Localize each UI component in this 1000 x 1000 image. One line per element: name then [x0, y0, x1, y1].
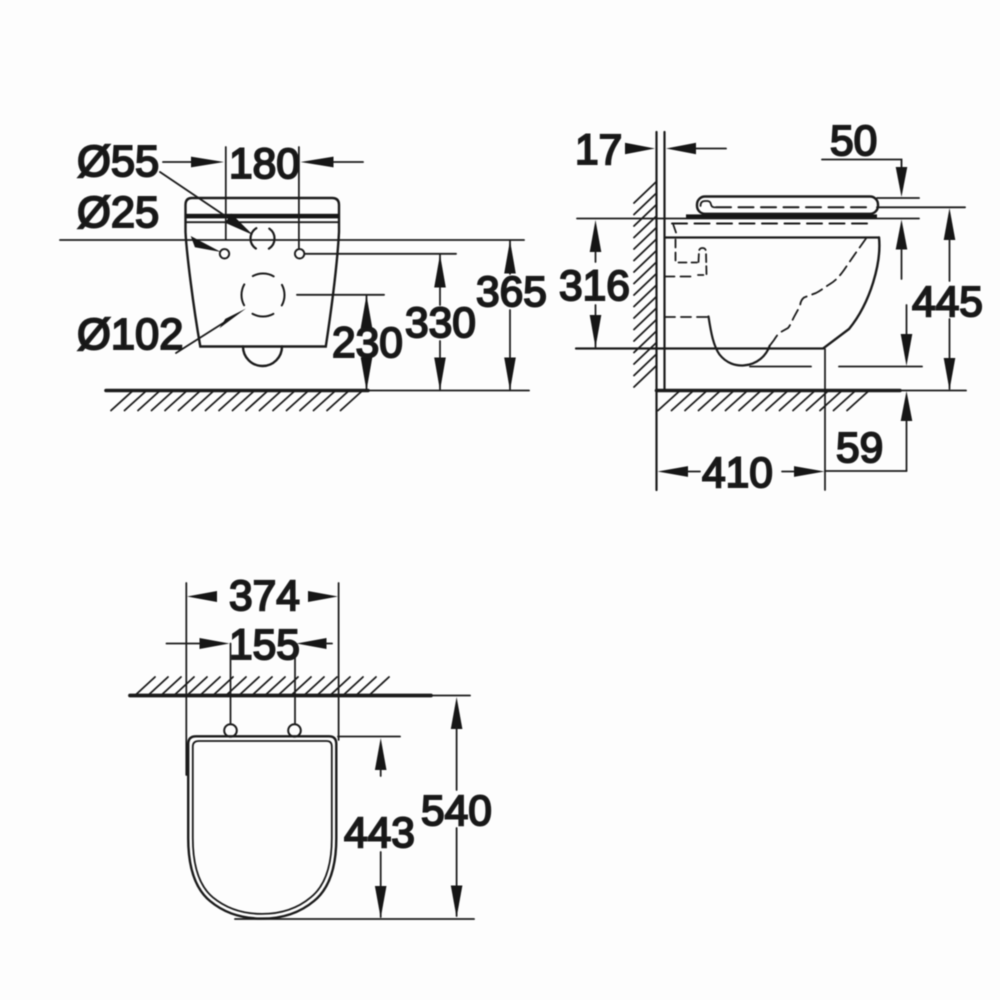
hidden line near wall: [665, 276, 694, 278]
small tick below seat: [673, 225, 676, 233]
left bolt bump: [224, 724, 237, 737]
230 reference line at O102 level: [297, 294, 384, 296]
rim reference line (also O25 leader and 365 top reference): [60, 239, 524, 241]
seat gap black bar: [686, 214, 877, 218]
bowl trap solid U curve: [709, 317, 770, 366]
155 tails and arrows: [167, 643, 203, 645]
wall line inner: [663, 132, 665, 390]
body bottom line: [576, 347, 824, 349]
right bolt bump: [288, 724, 301, 737]
155 extension line left: [230, 644, 232, 725]
svg-text:365: 365: [476, 269, 547, 316]
right fixing hole circle: [295, 249, 304, 258]
plan wall hatching: [136, 677, 389, 695]
seat lid rounded profile: [697, 197, 878, 214]
ground line thick: [106, 389, 368, 393]
rim block bottom line: [666, 236, 880, 238]
17 right arrow and tail: [666, 143, 696, 154]
50 down arrow: [896, 167, 908, 197]
374 extension line right: [338, 583, 340, 740]
left fixing hole circle: [220, 249, 229, 258]
reference line 445 top: [877, 206, 965, 208]
drain pipe semicircle: [243, 347, 282, 367]
50 leader elbow: [822, 160, 902, 173]
bottom reference line: [235, 918, 474, 920]
svg-text:330: 330: [405, 300, 476, 347]
SIDE-VIEW: [559, 118, 983, 497]
flush channel dashed vertical: [676, 240, 698, 263]
seat gap thick bar: [186, 214, 339, 219]
59 reference line at trap bottom: [750, 366, 811, 368]
ground hatching: [111, 392, 362, 411]
svg-text:374: 374: [229, 573, 300, 620]
svg-text:180: 180: [229, 141, 300, 188]
svg-text:Ø25: Ø25: [77, 189, 159, 237]
top reference line from lid: [877, 197, 919, 199]
180 right arrow: [301, 157, 334, 168]
180 extension line left: [225, 147, 227, 239]
17 left arrow and tail: [625, 143, 655, 154]
ground line thin extension: [368, 390, 529, 392]
flush channel dashed loop: [698, 248, 707, 275]
ground line thin extension: [900, 390, 966, 392]
svg-text:50: 50: [830, 118, 877, 165]
svg-text:17: 17: [575, 127, 622, 174]
svg-text:Ø55: Ø55: [77, 138, 159, 186]
410 extension line right: [824, 349, 826, 490]
PLAN-VIEW: [130, 573, 492, 919]
hidden seat dashed line: [672, 223, 874, 225]
443 top reference line: [338, 736, 400, 738]
bowl inner dashed contour: [770, 239, 867, 347]
side ground hatching: [658, 392, 868, 411]
374 extension line left: [185, 583, 187, 775]
wall line thin extension: [431, 695, 470, 697]
svg-text:445: 445: [912, 279, 983, 326]
wall hatching: [634, 182, 656, 387]
lid dashed hidden line: [716, 206, 872, 208]
180 dimension line tails: [163, 161, 193, 163]
O55 leader line with arrow: [160, 172, 232, 221]
FRONT-VIEW: [60, 138, 547, 411]
seat lower edge line: [186, 221, 338, 223]
plan body outer outline: [188, 736, 336, 918]
180 extension line right: [298, 147, 300, 248]
O55 dashed circle: [251, 227, 275, 251]
330 reference line at bolt level: [305, 253, 456, 255]
svg-text:59: 59: [836, 425, 883, 472]
wall line thick: [130, 694, 431, 698]
front bowl body outline: [186, 198, 340, 347]
svg-text:155: 155: [229, 622, 300, 669]
ground line thick: [657, 389, 901, 393]
svg-text:316: 316: [559, 263, 630, 310]
59 leader horizontal: [825, 470, 907, 472]
bowl outer profile curve: [824, 238, 880, 349]
155 extension line right: [294, 644, 296, 725]
50 up arrow with tail: [896, 220, 908, 250]
O102 dashed circle: [242, 274, 285, 317]
374 arrows: [187, 591, 217, 602]
180 left arrow: [191, 157, 224, 168]
svg-text:410: 410: [702, 450, 773, 497]
plan body inner outline: [193, 741, 332, 914]
svg-text:443: 443: [344, 810, 415, 857]
O25 leader arrow: [191, 236, 221, 252]
O102 leader line with arrow: [176, 320, 228, 353]
rim top reference line: [577, 218, 919, 220]
lid inner left hook: [701, 201, 716, 207]
svg-text:Ø102: Ø102: [77, 311, 183, 359]
wall line outer: [655, 132, 657, 490]
hidden outlet dashed lines: [664, 277, 666, 317]
